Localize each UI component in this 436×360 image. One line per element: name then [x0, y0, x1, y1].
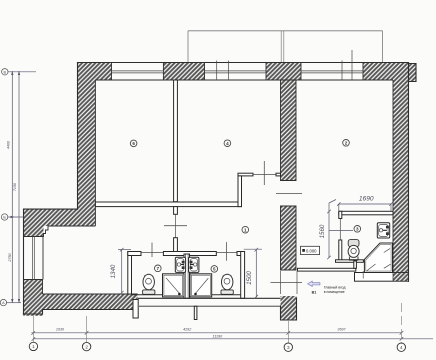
svg-text:1: 1 — [244, 227, 247, 232]
dimension 1340 — [118, 248, 131, 295]
wall stub below band 1 — [133, 300, 138, 319]
svg-text:1500: 1500 — [246, 271, 253, 285]
room3 left wall upper — [339, 211, 342, 218]
balcony divider — [281, 31, 284, 63]
partition below cross upper — [174, 207, 178, 215]
svg-text:4: 4 — [400, 345, 403, 350]
partition corridor horizontal — [95, 202, 241, 207]
pier bottom outline — [281, 298, 297, 320]
main wall outlines — [23, 63, 416, 321]
axis circle 2 — [82, 342, 90, 350]
band step notch — [24, 226, 49, 237]
door leaf corridor-vestibule — [271, 282, 303, 284]
bathroom top wall right piece — [237, 252, 244, 256]
partition room2 stub — [276, 173, 281, 176]
window 1 glazing — [112, 71, 164, 73]
dimension 1500 — [244, 248, 262, 299]
room3 bottom wall — [336, 260, 364, 263]
svg-text:4400: 4400 — [7, 140, 11, 149]
svg-text:2: 2 — [85, 344, 88, 349]
room3 top wall — [339, 211, 393, 215]
wall top pier 2 — [266, 63, 301, 81]
svg-text:0.000: 0.000 — [306, 249, 317, 254]
svg-text:7150: 7150 — [13, 182, 17, 191]
shower room3 edge line — [362, 271, 364, 279]
band top edge — [24, 208, 78, 210]
elevation mark box — [301, 246, 320, 254]
top pier edges — [111, 63, 113, 81]
svg-text:1690: 1690 — [359, 196, 374, 203]
wall interior pier — [281, 206, 297, 270]
axis circle 3 — [284, 343, 292, 351]
svg-text:1630: 1630 — [56, 328, 65, 332]
svg-text:в помещение: в помещение — [324, 290, 345, 294]
svg-text:1340: 1340 — [110, 264, 117, 278]
block inner edge — [42, 280, 44, 295]
toilet bath5 — [221, 274, 233, 294]
window left wall glazing — [33, 237, 35, 280]
right wall inner edge — [392, 80, 394, 273]
interior pier edges — [281, 206, 297, 270]
wall stub below band 2 — [194, 306, 197, 319]
bathroom top wall left piece — [128, 252, 141, 256]
bathroom door 1 line — [141, 252, 163, 254]
partition room2 vertical — [238, 176, 242, 207]
svg-text:1: 1 — [32, 344, 35, 349]
interior column edges — [281, 80, 297, 181]
window wall inner face — [42, 237, 44, 280]
svg-text:А: А — [2, 301, 5, 305]
door axis line corridor — [175, 214, 177, 237]
opening line room2 wall — [276, 193, 302, 195]
axis circle А — [0, 299, 6, 305]
shower bath7 — [163, 274, 185, 297]
partition room6/room4 — [174, 80, 178, 202]
wall left column — [78, 80, 96, 226]
wall corner top-left — [78, 63, 112, 81]
door leaf room2 — [263, 161, 265, 185]
partition below cross lower — [174, 238, 178, 252]
svg-text:4: 4 — [226, 141, 229, 146]
bathroom top wall middle piece — [163, 252, 216, 256]
svg-text:4292: 4292 — [183, 328, 191, 332]
axis circle В — [2, 69, 8, 75]
bathroom door 2 line — [216, 252, 237, 254]
svg-text:В: В — [4, 70, 7, 74]
left outer edge upper — [77, 63, 79, 210]
band bottom inner edge — [48, 225, 95, 227]
entrance arrow — [308, 281, 320, 286]
shower bath5 — [190, 274, 212, 297]
bottom band outer edge — [43, 309, 134, 311]
wall band left — [24, 209, 78, 226]
axis circle 1 — [29, 342, 37, 350]
room3 left wall lower — [339, 240, 342, 260]
sink room3 — [377, 223, 389, 238]
wall interior column — [281, 80, 297, 181]
wall block bottom-left — [23, 280, 42, 316]
svg-text:3: 3 — [356, 227, 359, 232]
svg-text:3: 3 — [287, 345, 290, 350]
doorway corridor-vestibule — [280, 271, 282, 294]
sink bath7 — [175, 257, 185, 272]
corner shower room3 — [364, 243, 392, 273]
sink bath5 — [189, 257, 199, 272]
svg-text:2750: 2750 — [8, 252, 12, 262]
door leaf corridor — [164, 225, 187, 227]
left outer edge lower — [23, 209, 25, 314]
hatched wall fills — [23, 63, 416, 321]
axis extension lines — [33, 303, 401, 343]
room3 door line — [339, 219, 341, 241]
left dimension lines — [7, 71, 36, 303]
balcony outline — [188, 31, 383, 63]
room labels — [130, 140, 360, 273]
vestibule wall step — [354, 261, 357, 268]
svg-text:3697: 3697 — [337, 328, 346, 332]
door line room2 — [253, 174, 276, 176]
svg-text:6: 6 — [132, 141, 135, 146]
bottom dimension line 2 — [32, 337, 433, 341]
toilet room3 — [348, 240, 359, 260]
bathroom door 2 leaf — [226, 242, 228, 261]
bottom band top edge — [43, 293, 138, 295]
wall entry stub — [393, 273, 409, 282]
vestibule wall — [298, 268, 356, 271]
axis circle 4 — [397, 343, 405, 351]
bathroom door 1 leaf — [151, 243, 153, 258]
dimension 1690 — [337, 202, 393, 211]
bathroom block left wall — [128, 252, 132, 295]
block bottom edge — [23, 313, 42, 315]
top outer edge — [78, 62, 409, 64]
bathroom central partition — [184, 254, 190, 298]
wall chunk below band — [24, 226, 44, 237]
wall bottom band — [43, 294, 138, 310]
block right step — [42, 310, 44, 315]
partition room2 horizontal — [238, 173, 253, 176]
inner wall edges — [23, 63, 393, 295]
wall right column — [393, 82, 409, 282]
window 3 glazing — [301, 50, 363, 80]
axis circle Б — [1, 214, 7, 220]
top-right tab — [409, 64, 417, 82]
svg-text:1560: 1560 — [319, 224, 326, 238]
block top edge — [23, 279, 42, 281]
bathroom right wall — [241, 252, 245, 299]
svg-text:11190: 11190 — [212, 335, 223, 339]
wall corner top-right — [393, 63, 409, 82]
bottom dimension line 1 — [31, 331, 403, 335]
svg-text:2: 2 — [345, 141, 348, 146]
svg-text:5: 5 — [213, 267, 216, 272]
svg-text:7: 7 — [157, 266, 160, 271]
porch edge lines — [132, 295, 281, 307]
right outer edge — [408, 63, 410, 282]
entry threshold — [355, 273, 409, 282]
wall top pier 3 — [363, 63, 393, 81]
toilet bath7 — [143, 274, 155, 294]
wall pier bottom — [281, 296, 297, 320]
top band inner edge — [95, 79, 393, 81]
window 2 glazing — [205, 61, 267, 81]
svg-text:В1: В1 — [312, 291, 317, 295]
dimension 1560 — [327, 200, 353, 260]
wall top pier 1 — [163, 63, 204, 81]
left wall inner edge — [94, 80, 96, 226]
